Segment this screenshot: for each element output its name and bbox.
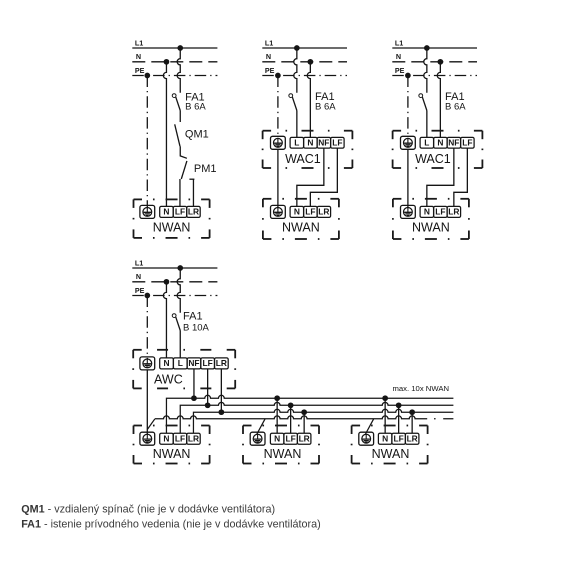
wire NF to N (d3)	[427, 148, 454, 206]
device box NWAN (d2)	[263, 199, 339, 239]
svg-text:LF: LF	[332, 138, 342, 148]
wire N line (bottom)	[132, 281, 217, 283]
svg-text:AWC: AWC	[154, 372, 183, 386]
svg-text:LF: LF	[175, 433, 185, 443]
device box WAC1 (d2)	[263, 131, 353, 168]
svg-text:NF: NF	[448, 138, 459, 148]
ground terminal (d1 NWAN)	[140, 205, 155, 218]
breaker FA1 (d1)	[172, 94, 180, 111]
wire L1 drop (d2)	[294, 48, 297, 93]
svg-text:NWAN: NWAN	[372, 447, 410, 461]
wire FA1 to L terminal (d2)	[296, 111, 298, 138]
svg-text:L1: L1	[135, 38, 143, 47]
wire QM1 to PM1 (d1)	[180, 146, 187, 158]
wire PE drop (d2)	[277, 76, 279, 139]
svg-text:PE: PE	[395, 66, 405, 75]
junction N (bottom)	[164, 279, 170, 285]
wire N line (d1)	[132, 61, 217, 63]
wire LR tap (NWAN2)	[303, 412, 305, 433]
svg-text:LR: LR	[448, 207, 459, 217]
switch PM1 blade (d1)	[181, 161, 187, 179]
wire PE WAC1 to NWAN (d3)	[407, 149, 409, 207]
svg-text:QM1: QM1	[185, 129, 209, 141]
junction N (d2)	[308, 59, 314, 65]
terminals L N NF LF (d2 WAC1)	[290, 137, 344, 148]
junction L1 (d1)	[177, 45, 183, 51]
wire L1 drop (d3)	[424, 48, 427, 93]
device box NWAN 3 (bottom)	[352, 426, 428, 464]
junction L1 (d3)	[424, 45, 430, 51]
wire NF to N (d2)	[297, 148, 324, 206]
svg-text:LR: LR	[216, 358, 227, 368]
svg-text:NWAN: NWAN	[412, 220, 450, 234]
terminals N LF LR (d3 NWAN)	[420, 206, 461, 217]
wire AWC LR drop	[220, 369, 222, 412]
wire PE diagonal (NWAN1)	[147, 419, 155, 430]
svg-text:L1: L1	[395, 38, 403, 47]
svg-text:LR: LR	[188, 207, 199, 217]
wire PE drop (d1)	[146, 76, 148, 208]
svg-text:N: N	[266, 52, 271, 61]
svg-text:NF: NF	[318, 138, 329, 148]
svg-text:L1: L1	[265, 38, 273, 47]
wire FA1 to QM1 (d1)	[179, 111, 181, 123]
ground terminal (NWAN3 bottom)	[359, 432, 374, 445]
svg-text:LF: LF	[305, 207, 315, 217]
svg-text:N: N	[136, 52, 141, 61]
junction LR-bus3	[219, 409, 225, 415]
terminals N LF LR (d2 NWAN)	[290, 206, 331, 217]
device box NWAN 1 (bottom)	[134, 426, 210, 464]
wire FA1 to L terminal (bottom)	[179, 331, 181, 358]
wire PE drop (bottom)	[146, 296, 148, 360]
junction bus3 tap (NWAN2)	[301, 409, 307, 415]
svg-text:LF: LF	[175, 207, 185, 217]
svg-text:NF: NF	[188, 358, 199, 368]
device box NWAN (d1)	[134, 199, 210, 238]
svg-text:LR: LR	[318, 207, 329, 217]
wire bus N (bus1)	[166, 395, 453, 433]
wire L1 drop (d1)	[177, 48, 180, 93]
svg-text:B 6A: B 6A	[185, 101, 206, 112]
wire PE line (d1)	[132, 75, 217, 77]
wire L1 drop (bottom)	[177, 268, 180, 313]
device box AWC	[133, 350, 235, 389]
svg-text:FA1 - istenie prívodného veden: FA1 - istenie prívodného vedenia (nie je…	[21, 519, 321, 531]
svg-text:PE: PE	[135, 66, 145, 75]
junction LF-bus2	[205, 402, 211, 408]
wire N line (d2)	[262, 61, 347, 63]
breaker FA1 (bottom)	[172, 314, 180, 331]
svg-text:PE: PE	[265, 66, 275, 75]
wire L1 line (d2)	[262, 47, 347, 49]
svg-text:N: N	[136, 272, 141, 281]
wire L1 line (bottom)	[132, 267, 217, 269]
ground terminal (NWAN1 bottom)	[140, 432, 155, 445]
svg-text:LF: LF	[435, 207, 445, 217]
svg-text:WAC1: WAC1	[285, 152, 321, 166]
wire bus LR (bus3)	[193, 409, 453, 433]
svg-text:LF: LF	[286, 433, 296, 443]
wire PE line (bottom)	[132, 295, 217, 297]
wire N tap (NWAN2)	[276, 398, 278, 433]
wire PE line (d2)	[262, 75, 347, 77]
junction L1 (bottom)	[177, 265, 183, 271]
svg-text:max. 10x NWAN: max. 10x NWAN	[392, 384, 449, 393]
wire LF tap (NWAN2)	[290, 405, 292, 433]
wire FA1 to L terminal (d3)	[426, 111, 428, 138]
contact PM1 LR tick (d1)	[189, 178, 194, 180]
wire PE line (d3)	[392, 75, 477, 77]
ground terminal (d2 WAC1)	[271, 136, 286, 149]
svg-text:L: L	[178, 358, 183, 368]
junction bus2 tap (NWAN2)	[288, 402, 294, 408]
svg-text:B 6A: B 6A	[445, 102, 466, 113]
wire PE drop (d3)	[407, 76, 409, 139]
junction NF-bus1	[191, 395, 197, 401]
wire bus PE tail (bus4)	[434, 418, 453, 420]
junction PE (bottom)	[144, 293, 150, 299]
svg-text:WAC1: WAC1	[415, 152, 451, 166]
svg-text:L1: L1	[135, 258, 143, 267]
junction bus1 tap (NWAN2)	[274, 395, 280, 401]
wire L1 line (d1)	[132, 47, 217, 49]
device box WAC1 (d3)	[393, 131, 483, 168]
svg-text:LR: LR	[188, 433, 199, 443]
wire N drop (bottom)	[163, 282, 166, 358]
wire LF to LF (d2)	[310, 148, 337, 206]
device box NWAN 2 (bottom)	[243, 426, 319, 464]
svg-text:NWAN: NWAN	[264, 447, 302, 461]
svg-text:LF: LF	[203, 358, 213, 368]
wire AWC NF drop	[193, 369, 195, 398]
wire AWC LF drop	[207, 369, 209, 405]
junction bus1 tap (NWAN3)	[382, 395, 388, 401]
terminals N LF LR (d1 NWAN)	[160, 206, 201, 217]
wire LR tap (NWAN3)	[411, 412, 413, 433]
svg-text:B 10A: B 10A	[183, 322, 210, 333]
terminals N LF LR (NWAN3 bottom)	[378, 433, 419, 444]
svg-text:NWAN: NWAN	[282, 220, 320, 234]
svg-text:L: L	[294, 138, 299, 148]
wire N drop (d1)	[163, 62, 166, 207]
svg-text:N: N	[294, 207, 300, 217]
junction PE (d3)	[405, 73, 411, 79]
wire LF tap (NWAN3)	[398, 405, 400, 433]
wire PE diagonal (NWAN3)	[366, 419, 374, 434]
svg-text:N: N	[163, 433, 169, 443]
svg-text:LR: LR	[407, 433, 418, 443]
terminals L N NF LF (d3 WAC1)	[420, 137, 474, 148]
ground terminal (d3 WAC1)	[401, 136, 416, 149]
svg-text:PE: PE	[135, 286, 145, 295]
wire LF to LR (d3)	[454, 148, 468, 206]
wire PM1 to LF terminal (d1)	[179, 179, 181, 206]
wire bus PE (bus4)	[155, 416, 427, 419]
svg-text:LF: LF	[394, 433, 404, 443]
svg-text:N: N	[163, 207, 169, 217]
svg-text:LF: LF	[462, 138, 472, 148]
junction N (d3)	[438, 59, 444, 65]
svg-text:NWAN: NWAN	[153, 220, 191, 234]
wire bus LF (bus2)	[180, 402, 453, 433]
junction L1 (d2)	[294, 45, 300, 51]
terminals N LF LR (NWAN1 bottom)	[160, 433, 201, 444]
svg-text:NWAN: NWAN	[153, 447, 191, 461]
wire PE WAC1 to NWAN (d2)	[277, 149, 279, 207]
svg-text:N: N	[307, 138, 313, 148]
ground terminal (d2 NWAN)	[271, 205, 286, 218]
terminals N LF LR (NWAN2 bottom)	[270, 433, 311, 444]
terminals N L NF LF LR (AWC)	[160, 358, 229, 369]
svg-text:N: N	[274, 433, 280, 443]
device box NWAN (d3)	[393, 199, 469, 239]
svg-text:L: L	[424, 138, 429, 148]
svg-text:N: N	[396, 52, 401, 61]
junction PE (d1)	[144, 73, 150, 79]
junction N (d1)	[164, 59, 170, 65]
svg-text:FA1: FA1	[183, 311, 203, 323]
wire N drop (d2)	[307, 62, 310, 138]
wire N drop (d3)	[437, 62, 440, 138]
wire PE diagonal (NWAN2)	[257, 419, 265, 434]
switch QM1 (d1)	[175, 124, 180, 146]
svg-text:LR: LR	[299, 433, 310, 443]
svg-text:N: N	[437, 138, 443, 148]
svg-text:QM1 - vzdialený spínač (nie je: QM1 - vzdialený spínač (nie je v dodávke…	[21, 504, 275, 516]
svg-text:N: N	[382, 433, 388, 443]
wire L1 line (d3)	[392, 47, 477, 49]
wire LR stub (d1)	[192, 179, 194, 206]
svg-text:N: N	[424, 207, 430, 217]
ground terminal (AWC)	[140, 357, 155, 370]
breaker FA1 (d3)	[419, 94, 427, 111]
svg-text:PM1: PM1	[194, 163, 217, 175]
wire PE drop AWC to NWAN1	[146, 370, 148, 434]
wire N line (d3)	[392, 61, 477, 63]
junction PE (d2)	[275, 73, 281, 79]
ground terminal (NWAN2 bottom)	[250, 432, 265, 445]
junction bus3 tap (NWAN3)	[409, 409, 415, 415]
breaker FA1 (d2)	[289, 94, 297, 111]
wire N tap (NWAN3)	[384, 398, 386, 433]
junction bus2 tap (NWAN3)	[396, 402, 402, 408]
ground terminal (d3 NWAN)	[401, 205, 416, 218]
svg-text:N: N	[164, 358, 170, 368]
svg-text:B 6A: B 6A	[315, 102, 336, 113]
